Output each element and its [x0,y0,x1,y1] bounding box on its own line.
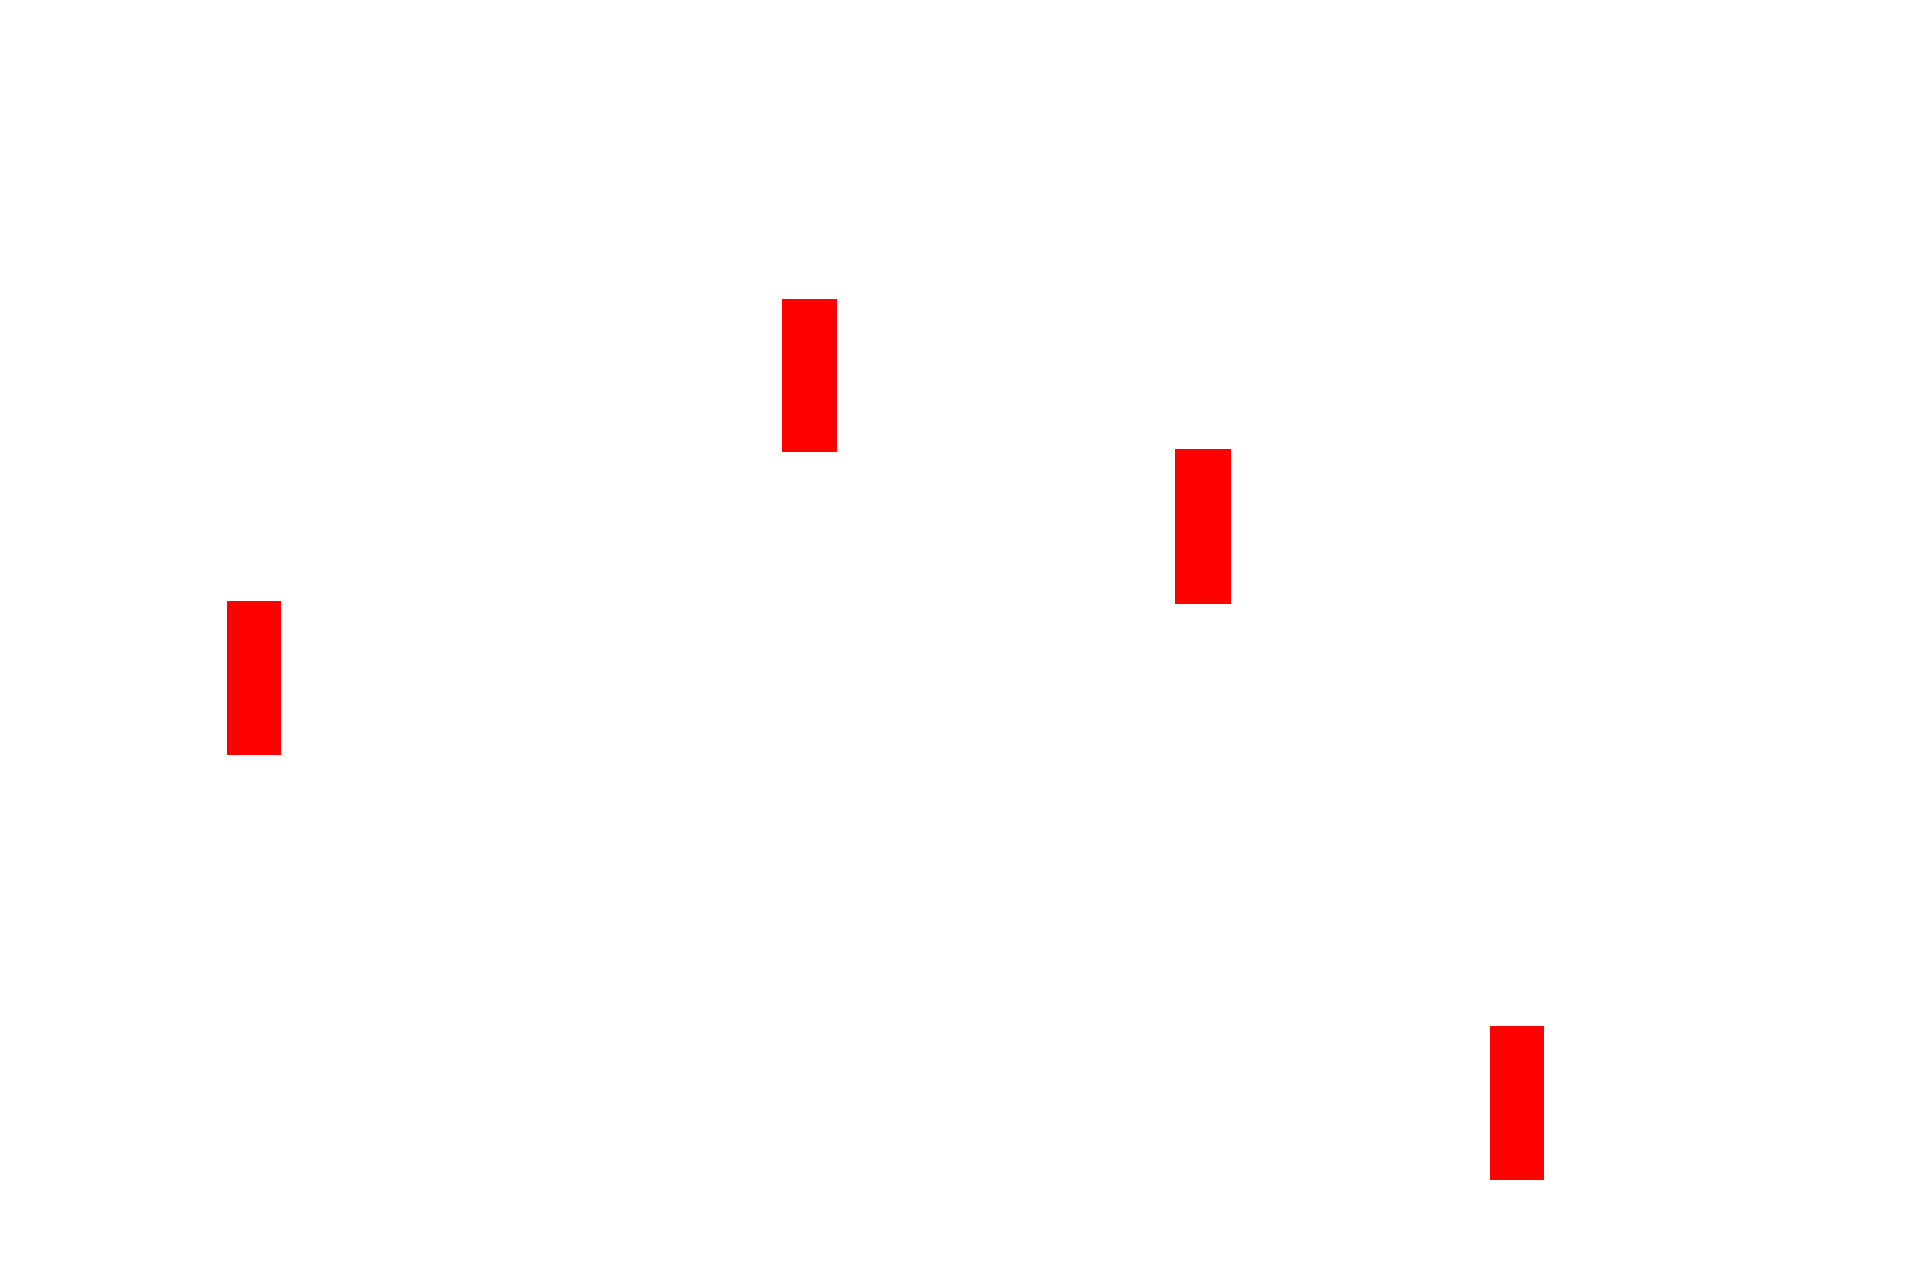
red bar 4 (bottom-right) [1490,1026,1544,1180]
red bar 1 (top middle-left) [782,299,837,452]
red bar 2 (center-right) [1175,449,1231,604]
red bar 3 (middle-left) [227,601,281,755]
